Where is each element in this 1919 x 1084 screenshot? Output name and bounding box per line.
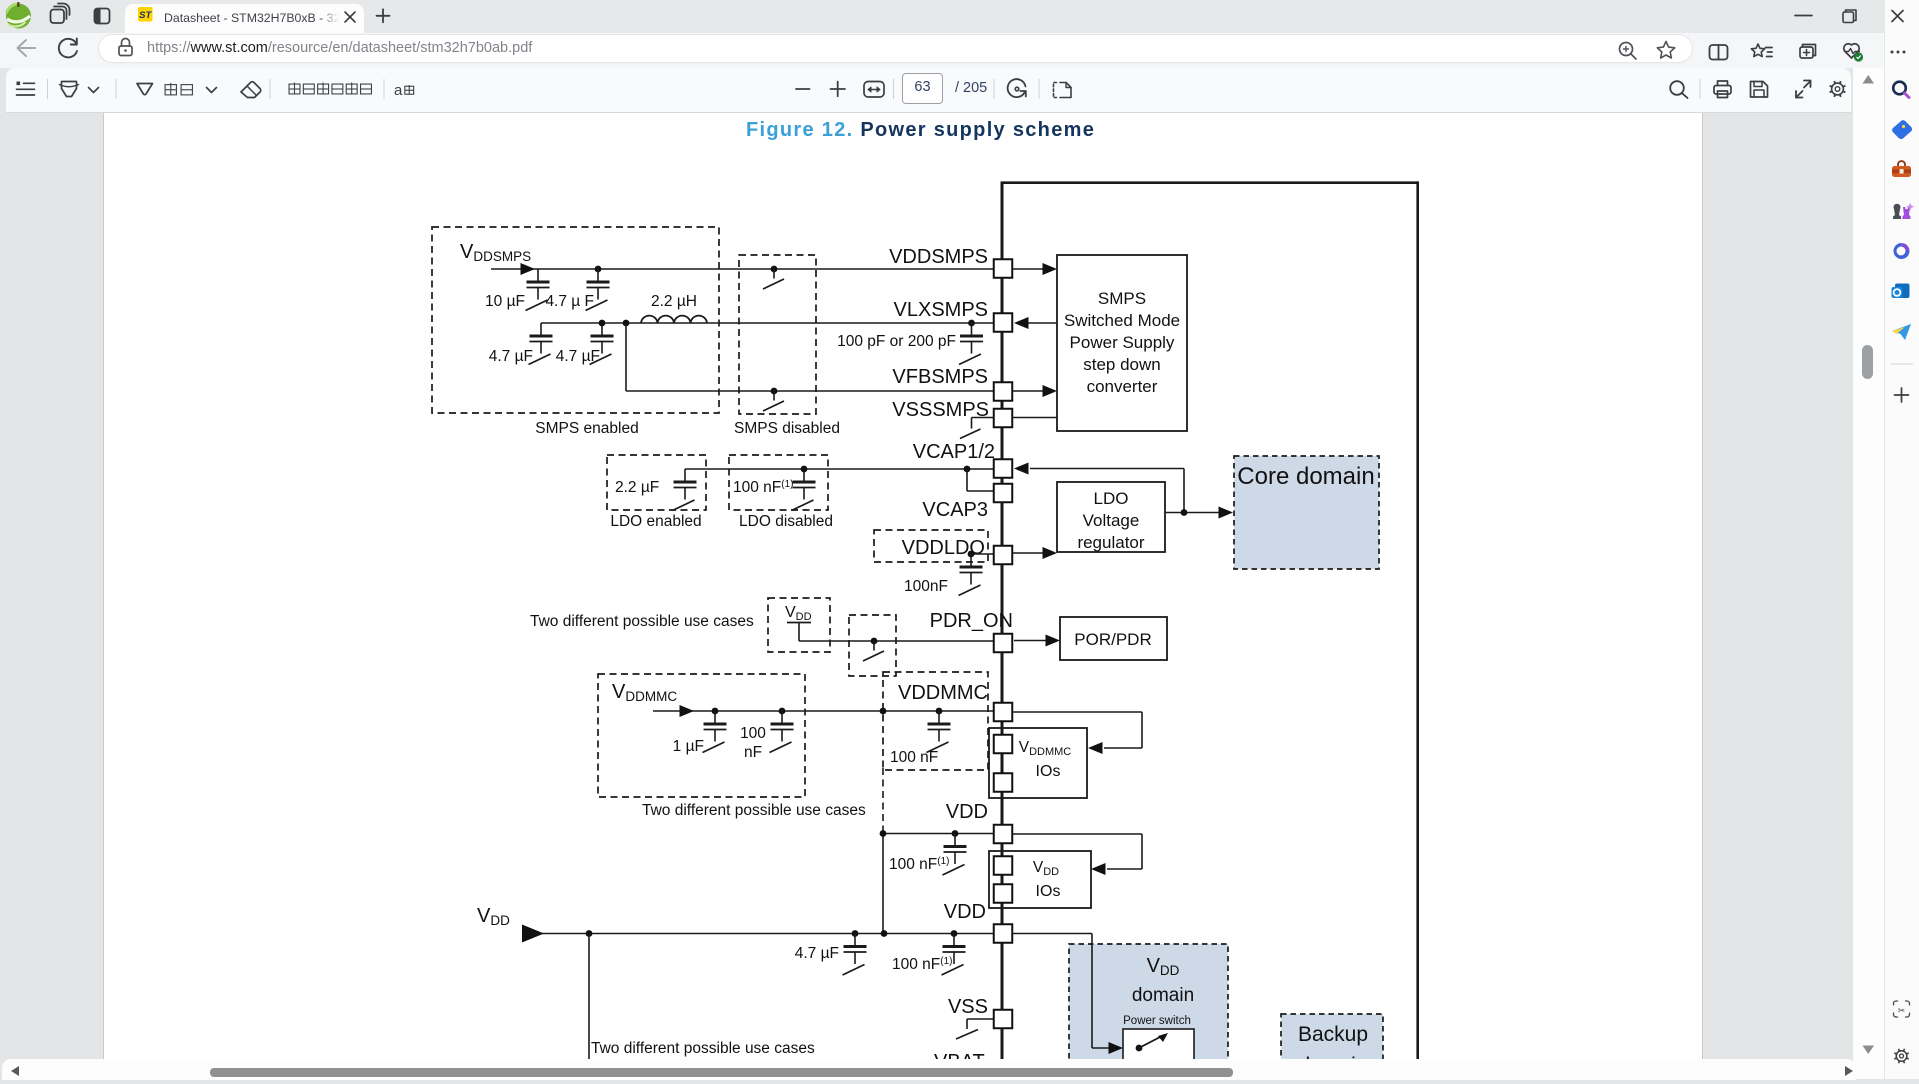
svg-text:VDDSMPS: VDDSMPS (889, 246, 988, 268)
svg-text:100: 100 (740, 725, 766, 742)
svg-text:regulator: regulator (1077, 533, 1144, 552)
svg-text:100 nF: 100 nF (890, 749, 938, 766)
svg-text:10 µF: 10 µF (485, 293, 525, 310)
svg-text:SMPS enabled: SMPS enabled (535, 420, 638, 437)
svg-text:VDDMMC: VDDMMC (898, 682, 988, 704)
svg-text:domain: domain (1132, 985, 1194, 1006)
svg-text:4.7 µ F: 4.7 µ F (545, 293, 594, 310)
svg-text:converter: converter (1087, 377, 1158, 396)
svg-text:Power switch: Power switch (1123, 1015, 1191, 1027)
svg-text:VCAP3: VCAP3 (922, 499, 988, 521)
svg-text:1 µF: 1 µF (673, 738, 704, 755)
svg-text:PDR_ON: PDR_ON (930, 610, 1013, 632)
svg-text:100 pF or 200 pF: 100 pF or 200 pF (837, 333, 956, 350)
svg-text:2.2 µH: 2.2 µH (651, 293, 697, 310)
svg-text:LDO: LDO (1094, 489, 1129, 508)
svg-text:4.7 µF: 4.7 µF (489, 348, 533, 365)
svg-text:SMPS: SMPS (1098, 289, 1146, 308)
svg-text:VCAP1/2: VCAP1/2 (913, 441, 995, 463)
svg-text:2.2 µF: 2.2 µF (615, 479, 659, 496)
svg-text:LDO enabled: LDO enabled (610, 513, 701, 530)
svg-text:Voltage: Voltage (1083, 511, 1140, 530)
svg-text:Figure 12. Power supply scheme: Figure 12. Power supply scheme (746, 119, 1095, 141)
svg-text:VDD: VDD (944, 901, 986, 923)
svg-text:VLXSMPS: VLXSMPS (894, 299, 988, 321)
svg-text:SMPS disabled: SMPS disabled (734, 420, 840, 437)
svg-text:VSS: VSS (948, 996, 988, 1018)
svg-text:Two different possible use cas: Two different possible use cases (642, 802, 866, 819)
svg-text:Backup: Backup (1298, 1023, 1368, 1046)
svg-text:Core domain: Core domain (1237, 463, 1374, 490)
svg-text:IOs: IOs (1036, 883, 1061, 900)
svg-text:LDO disabled: LDO disabled (739, 513, 833, 530)
svg-text:step down: step down (1083, 355, 1161, 374)
svg-text:VDD: VDD (946, 801, 988, 823)
svg-text:POR/PDR: POR/PDR (1074, 630, 1151, 649)
svg-text:Power Supply: Power Supply (1070, 333, 1175, 352)
svg-text:100nF: 100nF (904, 578, 948, 595)
svg-text:Switched Mode: Switched Mode (1064, 311, 1180, 330)
svg-text:IOs: IOs (1036, 763, 1061, 780)
svg-text:4.7 µF: 4.7 µF (795, 945, 839, 962)
svg-text:VSSSMPS: VSSSMPS (892, 399, 989, 421)
svg-text:nF: nF (744, 744, 762, 761)
svg-text:Two different possible use cas: Two different possible use cases (530, 613, 754, 630)
svg-text:4.7 µF: 4.7 µF (556, 348, 600, 365)
svg-text:VFBSMPS: VFBSMPS (892, 366, 988, 388)
svg-text:Two different possible use cas: Two different possible use cases (591, 1040, 815, 1057)
